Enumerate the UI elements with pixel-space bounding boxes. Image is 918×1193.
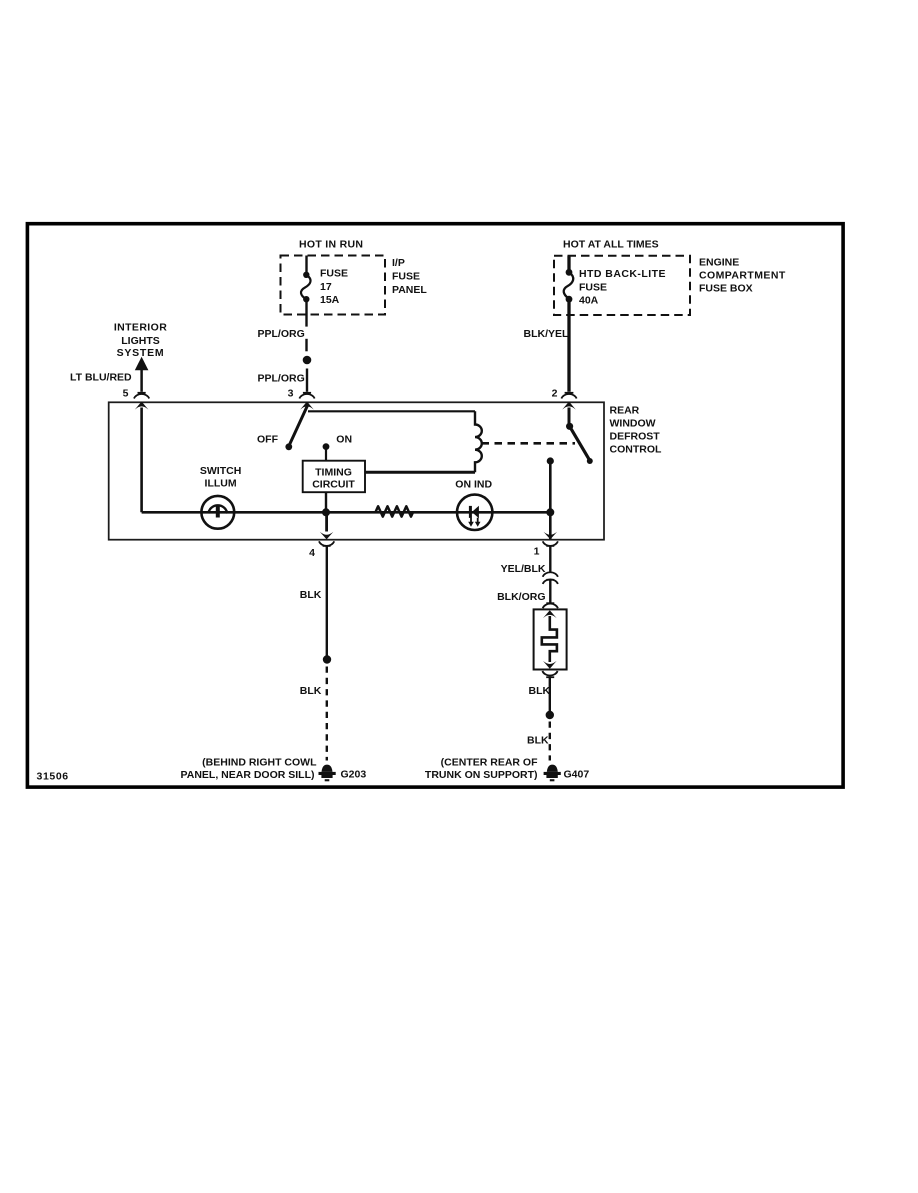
wire contact down to pin 1: [549, 461, 552, 539]
connector at pin 4: [319, 541, 334, 546]
svg-text:SWITCH: SWITCH: [200, 465, 241, 477]
wire LT BLU/RED: [140, 370, 143, 392]
svg-text:LIGHTS: LIGHTS: [121, 335, 160, 347]
svg-text:FUSE BOX: FUSE BOX: [699, 283, 753, 295]
svg-text:PPL/ORG: PPL/ORG: [258, 328, 305, 340]
pin 5 arrow inside box: [135, 402, 149, 410]
timing circuit box: [303, 461, 365, 493]
ground G407 symbol: [544, 765, 561, 782]
wire BLK/YEL: [567, 299, 570, 392]
connector at pin 1: [543, 541, 558, 546]
wire timing circuit down to junction: [325, 492, 327, 512]
svg-text:40A: 40A: [579, 295, 599, 307]
svg-text:REAR: REAR: [610, 405, 640, 417]
arrow to interior lights system: [135, 357, 149, 371]
svg-text:ON: ON: [336, 433, 352, 445]
svg-text:15A: 15A: [320, 294, 340, 306]
junction dot on PPL/ORG wire: [303, 356, 312, 365]
svg-text:G203: G203: [341, 768, 367, 780]
svg-text:I/P: I/P: [392, 257, 405, 269]
ON contact dot: [323, 443, 330, 450]
svg-text:SYSTEM: SYSTEM: [117, 347, 165, 359]
connector below grid element: [542, 671, 557, 677]
junction dot left leg: [323, 655, 331, 663]
pin 3 arrow inside box: [300, 402, 314, 410]
svg-text:CIRCUIT: CIRCUIT: [312, 479, 355, 491]
svg-text:ON IND: ON IND: [455, 479, 492, 491]
inline connector pair: [543, 572, 558, 584]
svg-text:FUSE: FUSE: [320, 268, 348, 280]
svg-text:COMPARTMENT: COMPARTMENT: [699, 270, 786, 282]
wire YEL/BLK from pin 1: [549, 546, 551, 572]
svg-text:FUSE: FUSE: [392, 270, 420, 282]
wire pin3 to relay coil (top): [308, 410, 475, 412]
wire BLK/ORG: [549, 581, 551, 603]
svg-text:4: 4: [309, 547, 315, 559]
svg-text:17: 17: [320, 281, 332, 293]
svg-text:3: 3: [288, 388, 294, 400]
connector at pin 3: [299, 393, 314, 399]
svg-text:OFF: OFF: [257, 433, 279, 445]
resistor: [376, 506, 414, 516]
svg-text:TRUNK ON SUPPORT): TRUNK ON SUPPORT): [425, 769, 538, 781]
junction dot at pin1 column: [546, 508, 554, 516]
svg-text:LT BLU/RED: LT BLU/RED: [70, 371, 132, 383]
connector at pin 2: [561, 393, 576, 399]
svg-text:BLK: BLK: [300, 685, 322, 697]
svg-text:BLK: BLK: [300, 589, 322, 601]
main lamp row wire: [142, 511, 551, 514]
svg-text:ENGINE: ENGINE: [699, 257, 739, 269]
fuse box: engine compartment fuse box (dashed): [554, 256, 690, 315]
svg-text:1: 1: [534, 546, 540, 558]
wire PPL/ORG from fuse down: [305, 299, 307, 351]
connector at pin 5: [134, 393, 149, 399]
fixed contact dot: [547, 457, 554, 464]
label location G407: [425, 756, 538, 781]
label REAR WINDOW DEFROST CONTROL: [610, 405, 662, 456]
svg-text:WINDOW: WINDOW: [610, 418, 656, 430]
wire from pin 5 down to lamp row: [140, 408, 143, 513]
svg-text:(BEHIND RIGHT COWL: (BEHIND RIGHT COWL: [202, 756, 317, 768]
svg-text:HOT IN RUN: HOT IN RUN: [299, 238, 363, 250]
OFF contact dot: [285, 443, 292, 450]
blade pivot dot: [566, 423, 573, 430]
wire junction down to pin 4: [325, 512, 328, 531]
pin 1 arrow (down): [544, 532, 558, 540]
wire into HTD BACK-LITE fuse: [567, 256, 570, 272]
junction dot right leg: [546, 711, 554, 719]
svg-text:31506: 31506: [37, 770, 69, 782]
svg-text:PPL/ORG: PPL/ORG: [258, 372, 305, 384]
dashed BLK wire to G407: [549, 722, 551, 761]
wire BLK from pin 4: [326, 546, 328, 660]
svg-text:BLK/YEL: BLK/YEL: [524, 328, 570, 340]
dashed BLK wire to G203: [326, 667, 328, 761]
switch blade from pin 3 to OFF contact: [290, 406, 308, 445]
svg-text:FUSE: FUSE: [579, 281, 607, 293]
label INTERIOR LIGHTS SYSTEM: [114, 322, 167, 360]
ground G203 symbol: [319, 765, 336, 782]
svg-text:BLK: BLK: [527, 734, 549, 746]
svg-text:HTD BACK-LITE: HTD BACK-LITE: [579, 268, 666, 280]
dashed linkage coil to switch blade: [482, 442, 576, 445]
on ind lamp (LED): [457, 495, 492, 530]
junction dot at timing/lamp row: [322, 508, 330, 516]
fuse 17 15A element: [301, 272, 311, 303]
grid element symbol: [542, 610, 557, 669]
wire timing circuit to coil (bottom): [365, 471, 475, 474]
connector into grid element: [543, 603, 558, 608]
svg-text:INTERIOR: INTERIOR: [114, 322, 167, 334]
svg-text:BLK/ORG: BLK/ORG: [497, 591, 545, 603]
svg-text:BLK: BLK: [529, 685, 551, 697]
label location G203: [181, 756, 318, 781]
svg-text:DEFROST: DEFROST: [610, 431, 661, 443]
svg-text:PANEL, NEAR DOOR SILL): PANEL, NEAR DOOR SILL): [181, 769, 315, 781]
label SWITCH ILLUM: [200, 465, 241, 489]
svg-text:CONTROL: CONTROL: [610, 444, 662, 456]
pin 4 arrow (down): [320, 532, 334, 540]
rear window defrost control box: [109, 402, 604, 539]
switch illum lamp: [201, 496, 234, 529]
svg-text:YEL/BLK: YEL/BLK: [501, 563, 546, 575]
fuse HTD BACK-LITE 40A element: [564, 269, 574, 303]
heated grid element box: [534, 609, 567, 669]
relay switch blade (open): [570, 426, 590, 460]
blade end blob: [587, 458, 593, 464]
svg-text:5: 5: [123, 387, 129, 399]
wire BLK right leg: [549, 677, 551, 715]
svg-text:ILLUM: ILLUM: [205, 478, 237, 490]
relay coil: [475, 411, 482, 472]
svg-text:HOT AT ALL TIMES: HOT AT ALL TIMES: [563, 238, 659, 250]
label TIMING CIRCUIT: [312, 466, 355, 490]
stub ON contact to timing circuit: [325, 447, 327, 461]
pin 2 arrow inside box: [562, 402, 576, 410]
svg-text:(CENTER REAR OF: (CENTER REAR OF: [441, 756, 538, 768]
svg-text:TIMING: TIMING: [315, 466, 352, 478]
wire pin 2 down to blade pivot: [568, 408, 571, 427]
wire into fuse 17: [305, 256, 307, 275]
svg-text:G407: G407: [564, 768, 590, 780]
fuse box: I/P fuse panel (dashed): [281, 256, 386, 315]
wire PPL/ORG lower: [306, 369, 308, 392]
svg-text:2: 2: [552, 387, 558, 399]
svg-text:PANEL: PANEL: [392, 284, 427, 296]
